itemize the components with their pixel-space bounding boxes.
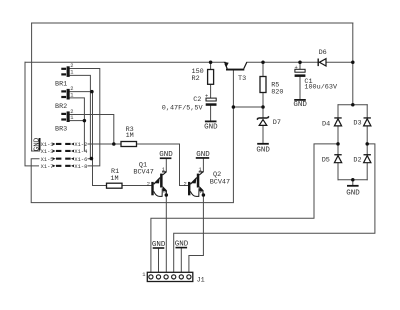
wire Q1 emitter to J1 pin3 — [165, 195, 167, 272]
junction node rail-bridge — [351, 61, 355, 65]
ground J1 pin5 — [175, 241, 189, 249]
svg-text:D5: D5 — [322, 156, 330, 164]
svg-text:BCV47: BCV47 — [133, 169, 153, 177]
connector X1 rows — [41, 142, 88, 170]
wire bridge gnd stub — [352, 180, 354, 185]
bridge BR3 — [61, 109, 73, 122]
ground C1 — [293, 99, 307, 109]
svg-text:2: 2 — [70, 63, 73, 69]
wire Q2 emitter to J1 pin6 — [189, 195, 204, 272]
svg-text:GND: GND — [196, 151, 210, 159]
wire rail to C1 — [299, 62, 301, 69]
svg-text:D6: D6 — [319, 49, 327, 57]
wire rail to R2 — [210, 62, 212, 69]
junction node X1-6 row — [90, 157, 94, 161]
svg-text:1: 1 — [199, 167, 202, 173]
capacitor C2 — [205, 94, 217, 106]
wire main rail right segment — [247, 61, 353, 63]
diode D2 — [364, 154, 371, 163]
wire C2 to gnd — [210, 106, 212, 121]
wire BR2 pin2 net down to R1 — [93, 92, 107, 186]
transistor Q2 BCV47 darlington — [188, 172, 204, 197]
svg-text:D3: D3 — [353, 120, 361, 128]
svg-text:R2: R2 — [192, 75, 200, 83]
wire BR1 pin2 to X1-8 — [70, 69, 100, 166]
wire top loop left leg — [31, 23, 33, 151]
junction node rail-R2 — [209, 61, 213, 65]
junction node BR3 pin1 — [83, 119, 87, 123]
svg-text:1: 1 — [70, 92, 73, 98]
wire J1 pin5 to gnd — [180, 248, 182, 272]
svg-text:3: 3 — [163, 190, 169, 193]
junction node bridge left mid — [336, 142, 340, 146]
ground J1 pin2 — [152, 241, 166, 249]
junction node Q1 emitter — [165, 193, 169, 197]
resistor R2 body — [208, 70, 214, 85]
svg-text:820: 820 — [271, 89, 283, 97]
svg-text:BR1: BR1 — [55, 81, 67, 89]
wire top loop right leg down to bridge — [352, 23, 354, 105]
svg-text:3: 3 — [200, 190, 206, 193]
diode D7 zener — [257, 116, 269, 125]
wire Q2 gnd riser — [202, 159, 204, 172]
wire C1 to gnd — [299, 77, 301, 99]
wire Q1 gnd riser — [165, 159, 167, 172]
svg-text:1: 1 — [70, 70, 73, 76]
junction node rail-R5 — [261, 61, 265, 65]
junction node BR2 pin2 — [90, 90, 94, 94]
ground C2 — [204, 121, 218, 132]
svg-text:BCV47: BCV47 — [210, 179, 230, 187]
svg-text:X1-3: X1-3 — [41, 149, 54, 155]
svg-text:X1-7: X1-7 — [41, 164, 54, 170]
ground Q1 — [159, 151, 173, 159]
wire BR3 pin2 down to X1-2 row — [70, 115, 114, 145]
junction node Q2 emitter — [202, 193, 206, 197]
svg-text:D7: D7 — [273, 119, 281, 127]
junction node bridge top — [351, 103, 355, 107]
junction node T3 base cross right — [261, 105, 265, 109]
ground D7 — [256, 143, 270, 155]
svg-text:GND: GND — [159, 151, 173, 159]
junction node rail-C1 — [298, 61, 302, 65]
svg-text:1: 1 — [142, 272, 145, 278]
wire D7 to gnd — [262, 125, 264, 143]
svg-text:2: 2 — [184, 182, 187, 188]
svg-text:0,47F/5,5V: 0,47F/5,5V — [162, 105, 204, 113]
svg-text:J1: J1 — [197, 277, 205, 285]
node X1-7 / X1-8 row — [41, 164, 88, 170]
capacitor C1 — [295, 65, 306, 77]
svg-text:D2: D2 — [353, 156, 361, 164]
svg-text:X1-4: X1-4 — [74, 149, 87, 155]
svg-text:X1-6: X1-6 — [74, 157, 87, 163]
junction node bridge bottom — [351, 178, 355, 182]
wire bridge right mid to J1 pin4 — [174, 144, 375, 272]
ground Q2 — [196, 151, 211, 159]
node X1-3 / X1-4 row — [41, 149, 88, 155]
svg-text:1M: 1M — [126, 132, 134, 140]
wire top loop horizontal — [32, 22, 353, 24]
wire bridge left branch — [337, 105, 339, 180]
junction node T3 base cross left — [232, 105, 236, 109]
wire bridge top — [338, 104, 367, 106]
wire X1-3 left stub — [32, 150, 40, 152]
connector J1 — [142, 272, 204, 285]
junction node bridge right mid — [365, 142, 369, 146]
wire main rail left segment — [25, 61, 225, 63]
svg-text:100u/63V: 100u/63V — [304, 84, 338, 92]
wire BR1 pin1 down to X1-6 — [70, 75, 93, 158]
wire X1-2 row to R3 — [88, 143, 121, 145]
resistor R3 body — [121, 142, 137, 147]
wire R3 to Q2 base — [137, 144, 188, 186]
svg-text:BR2: BR2 — [55, 103, 67, 111]
svg-text:GND: GND — [293, 101, 307, 109]
wire BR2 pin1 down to X1-4 — [70, 98, 84, 151]
node X1-5 / X1-6 row — [41, 157, 88, 163]
svg-text:GND: GND — [256, 146, 270, 154]
svg-text:GND: GND — [204, 123, 218, 131]
svg-text:GND: GND — [152, 241, 166, 249]
resistor R1 body — [107, 183, 123, 188]
svg-text:1M: 1M — [110, 175, 118, 183]
wire rail to R5 — [262, 62, 264, 76]
svg-text:X1-1: X1-1 — [41, 142, 54, 148]
wire rail left drop to X1-7 — [25, 62, 39, 166]
diode D6 — [318, 59, 327, 67]
svg-text:C2: C2 — [193, 96, 201, 104]
svg-text:BR3: BR3 — [55, 126, 67, 134]
svg-text:T3: T3 — [238, 75, 246, 83]
svg-text:X1-2: X1-2 — [74, 142, 87, 148]
ground X1-1 rotated — [33, 137, 41, 151]
diode D5 — [334, 154, 341, 163]
wire bridge right branch — [366, 105, 368, 180]
wire R5 to D7 — [262, 93, 264, 118]
svg-text:2: 2 — [70, 86, 73, 92]
wire bridge bottom — [338, 179, 367, 181]
resistor R5 body — [260, 77, 266, 93]
svg-text:2: 2 — [147, 182, 150, 188]
wire J1 pin2 to gnd — [158, 249, 160, 273]
svg-text:D4: D4 — [322, 121, 330, 129]
svg-text:X1-8: X1-8 — [74, 164, 87, 170]
svg-text:GND: GND — [346, 190, 360, 198]
svg-text:X1-5: X1-5 — [41, 157, 54, 163]
wire bridge left mid to J1 pin1 — [151, 144, 338, 272]
svg-text:GND: GND — [175, 241, 189, 249]
bridge BR2 — [61, 86, 73, 100]
wire X1-5 stub and T3 base net — [31, 70, 233, 202]
wire BR3 pin1 — [70, 120, 84, 122]
wire BR2 pin2 — [70, 91, 93, 93]
node X1-1 / X1-2 row — [41, 142, 88, 148]
svg-text:1: 1 — [70, 115, 73, 121]
junction node X1-2 row — [112, 142, 116, 146]
svg-text:+: + — [295, 65, 298, 71]
wire R2 to C2 — [210, 84, 212, 98]
svg-text:+: + — [205, 94, 208, 100]
transistor Q1 BCV47 darlington — [151, 172, 167, 197]
wire R1 to Q1 base — [122, 185, 151, 187]
ground bridge — [346, 185, 360, 198]
diode D4 — [334, 117, 341, 126]
diode D3 — [364, 117, 371, 126]
bridge BR1 — [61, 63, 73, 77]
svg-text:1: 1 — [162, 167, 165, 173]
wire T3 base cross to R5 bottom — [233, 106, 263, 108]
transistor T3 — [224, 62, 247, 71]
